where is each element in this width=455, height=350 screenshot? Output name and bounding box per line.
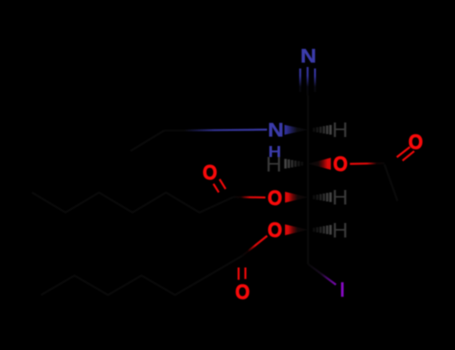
svg-text:H: H bbox=[332, 118, 348, 142]
svg-text:I: I bbox=[340, 279, 346, 302]
hash C5-H bbox=[314, 225, 331, 235]
svg-text:O: O bbox=[408, 131, 423, 154]
wire N-alkyl faint second bond bbox=[131, 131, 165, 151]
wire upper ester acyl chain (faint) bbox=[32, 193, 234, 213]
wedge C5-O bbox=[285, 224, 308, 235]
svg-text:N: N bbox=[268, 120, 284, 141]
wire lower ester acyl chain (faint) bbox=[41, 256, 242, 295]
wedge C3-O bbox=[308, 158, 331, 170]
svg-text:O: O bbox=[235, 281, 250, 304]
svg-text:O: O bbox=[203, 161, 218, 184]
upper left C=O double bond bbox=[220, 179, 226, 189]
svg-text:O: O bbox=[268, 187, 283, 210]
hash C2-H bbox=[314, 125, 331, 135]
hash C4-H bbox=[314, 192, 331, 202]
wire ester O-C upper left bbox=[234, 196, 266, 199]
svg-text:H: H bbox=[332, 185, 348, 209]
svg-text:O: O bbox=[268, 219, 283, 242]
wire backbone C1-C2-C3-C4-C5-C6 (faint carbon chain) bbox=[307, 96, 309, 265]
wire acetyl methyl (faint) bbox=[385, 165, 398, 202]
wire C6-I bond bbox=[308, 264, 336, 285]
nitrile triple bond C1#N bbox=[299, 69, 301, 93]
lower left C=O double bond bbox=[238, 268, 240, 280]
svg-text:O: O bbox=[333, 153, 348, 176]
wire N-CH2 long bond bbox=[164, 130, 267, 131]
wire O-C acetyl bbox=[350, 162, 385, 165]
svg-text:N: N bbox=[300, 46, 316, 67]
wedge C2-N bbox=[285, 125, 309, 135]
acetyl C=O double bond bbox=[403, 151, 415, 161]
svg-text:H: H bbox=[332, 218, 348, 242]
svg-text:H: H bbox=[266, 152, 282, 176]
wedge C4-O bbox=[285, 192, 308, 203]
wire ester O-C lower left bbox=[242, 236, 267, 256]
hash C3-H (left) bbox=[286, 159, 303, 169]
